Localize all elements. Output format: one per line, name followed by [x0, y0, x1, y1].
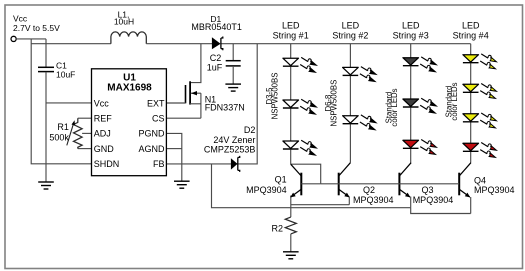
svg-text:Vcc: Vcc — [94, 98, 110, 108]
svg-text:10uH: 10uH — [114, 17, 134, 27]
svg-text:D2: D2 — [244, 125, 256, 135]
svg-text:LED: LED — [282, 20, 300, 30]
svg-text:LED: LED — [462, 20, 480, 30]
svg-text:C2: C2 — [210, 53, 222, 63]
svg-text:CS: CS — [152, 114, 165, 124]
svg-text:NSPW500BS: NSPW500BS — [330, 80, 339, 127]
svg-text:MPQ3904: MPQ3904 — [353, 195, 394, 205]
svg-text:Q3: Q3 — [422, 185, 434, 195]
svg-text:500k: 500k — [49, 133, 69, 143]
svg-text:color LEDs: color LEDs — [390, 88, 399, 126]
svg-text:MPQ3904: MPQ3904 — [413, 195, 454, 205]
svg-text:Q4: Q4 — [474, 175, 486, 185]
svg-text:Q1: Q1 — [275, 175, 287, 185]
svg-text:String #4: String #4 — [453, 30, 489, 40]
svg-text:PGND: PGND — [138, 129, 165, 139]
svg-text:LED: LED — [342, 20, 360, 30]
svg-text:MPQ3904: MPQ3904 — [474, 185, 515, 195]
svg-text:FDN337N: FDN337N — [205, 102, 245, 112]
svg-text:REF: REF — [94, 114, 113, 124]
svg-text:CMPZ5253B: CMPZ5253B — [204, 145, 256, 155]
svg-text:EXT: EXT — [147, 98, 165, 108]
svg-text:MBR0540T1: MBR0540T1 — [191, 22, 242, 32]
svg-text:String #2: String #2 — [332, 30, 368, 40]
svg-text:2.7V to 5.5V: 2.7V to 5.5V — [13, 23, 60, 33]
svg-text:NSPW500BS: NSPW500BS — [271, 73, 280, 120]
svg-text:SHDN: SHDN — [94, 159, 120, 169]
svg-text:String #1: String #1 — [273, 30, 309, 40]
svg-text:String #3: String #3 — [393, 30, 429, 40]
svg-text:MPQ3904: MPQ3904 — [246, 185, 287, 195]
svg-text:R2: R2 — [271, 224, 283, 234]
svg-text:Q2: Q2 — [363, 185, 375, 195]
svg-text:LED: LED — [402, 20, 420, 30]
svg-text:24V Zener: 24V Zener — [213, 135, 255, 145]
svg-text:GND: GND — [94, 144, 115, 154]
svg-text:FB: FB — [153, 159, 165, 169]
svg-text:R1: R1 — [57, 122, 69, 132]
svg-text:color LEDs: color LEDs — [450, 82, 459, 120]
svg-text:MAX1698: MAX1698 — [107, 83, 152, 94]
svg-text:1uF: 1uF — [207, 63, 223, 73]
svg-text:10uF: 10uF — [56, 70, 75, 80]
svg-text:ADJ: ADJ — [94, 129, 111, 139]
svg-text:Vcc: Vcc — [13, 14, 28, 24]
svg-text:AGND: AGND — [138, 144, 165, 154]
